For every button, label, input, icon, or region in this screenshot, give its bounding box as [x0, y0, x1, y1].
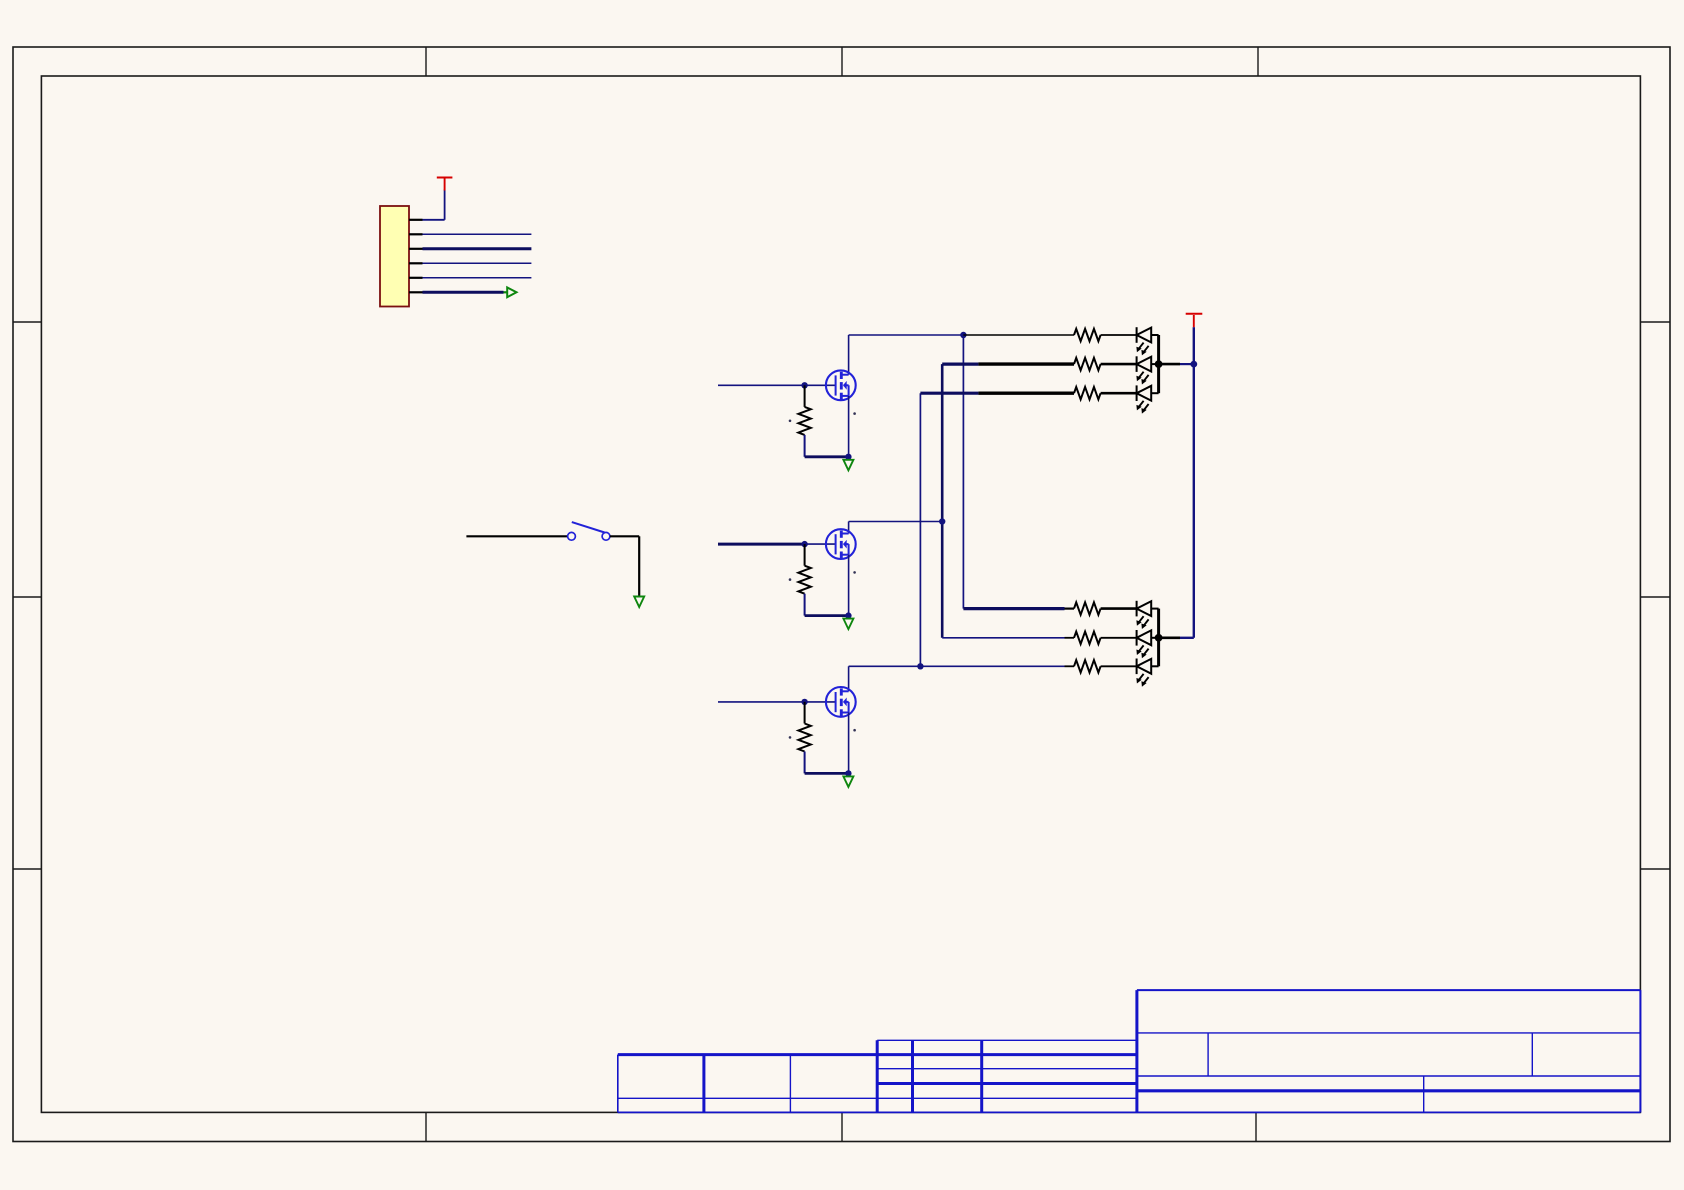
wire drain Q1 — [849, 335, 964, 375]
node power rail junction — [1190, 361, 1197, 368]
wire bottom bank to power rail — [1159, 636, 1180, 639]
wire row3 bottom (black lead) — [1065, 665, 1075, 667]
switch SW1 — [568, 522, 610, 540]
wire power rail vertical — [1180, 327, 1194, 638]
LED D6 — [1136, 659, 1158, 687]
wire top bank to power rail — [1159, 363, 1180, 366]
transistor Q3 — [826, 687, 856, 717]
node gate Q2 junction — [801, 541, 807, 547]
wire source Q3 — [848, 713, 850, 774]
resistor R4 — [1074, 329, 1137, 341]
node gate Q1 junction — [801, 382, 807, 388]
wire row1 top (black thin) — [963, 334, 1074, 336]
wire bus row1 (Q1 to LED banks) — [963, 335, 1064, 609]
designator speck Q1 — [789, 420, 792, 423]
wire row2 bottom (black lead) — [1065, 637, 1075, 639]
wire gate Q1 — [718, 384, 836, 386]
wire bus row2 — [942, 364, 1064, 638]
wire resistor R1 to source — [805, 455, 849, 458]
LED D2 — [1136, 356, 1158, 384]
wire pin3 (thick) — [423, 247, 532, 250]
wire drain Q2 — [849, 522, 943, 534]
wire bus row3 — [920, 393, 1064, 666]
ground (switch) — [634, 597, 644, 608]
wire resistor R2 to source — [805, 614, 849, 617]
transistor Q1 — [826, 370, 856, 400]
designator speck Q2 — [789, 578, 792, 581]
node source Q2 — [845, 612, 851, 618]
power port VCC (left) — [437, 178, 453, 191]
LED D4 — [1136, 601, 1158, 629]
node source Q1 — [845, 454, 851, 460]
wire row3 top (black thick) — [978, 392, 1074, 395]
title block middle table — [877, 1040, 1137, 1112]
title block left table — [618, 1055, 1641, 1113]
node source Q3 — [845, 770, 851, 776]
wire pin5 — [423, 277, 532, 279]
resistor R5 — [1074, 358, 1137, 370]
resistor R6 — [1074, 387, 1137, 399]
resistor R2 (gate pulldown) — [798, 544, 810, 616]
resistor R8 — [1074, 632, 1137, 644]
connector J1 — [380, 206, 409, 307]
ground (Q1 source) — [843, 460, 853, 471]
resistor R7 — [1074, 602, 1137, 614]
wire LED top bank tie — [1157, 335, 1160, 393]
ground (Q2 source) — [843, 619, 853, 630]
LED D3 — [1136, 385, 1158, 413]
connector J1 pin stubs — [409, 220, 423, 292]
wire source Q1 — [848, 396, 850, 457]
wire pin1 to power — [423, 190, 445, 220]
resistor R9 — [1074, 660, 1137, 672]
wire row1 bottom (black lead) — [1065, 607, 1075, 609]
wire LED bottom bank tie — [1157, 609, 1160, 667]
designator speck Q3 — [789, 736, 792, 739]
wire pin2 — [423, 233, 532, 235]
wire source Q2 — [848, 555, 850, 616]
power port VCC (right) — [1186, 314, 1203, 328]
node top bank junction — [1155, 360, 1163, 368]
title block main block — [1137, 990, 1641, 1112]
node bus3 junction (Q3 drain) — [917, 663, 923, 669]
wire switch to ground — [610, 536, 639, 595]
node bus1 junction — [960, 332, 966, 338]
port arrow (green) — [504, 287, 517, 297]
node gate Q3 junction — [801, 699, 807, 705]
wire row2 top (black thick) — [978, 362, 1074, 365]
LED D5 — [1136, 630, 1158, 658]
wire gate Q2 — [718, 543, 805, 546]
wire pin4 — [423, 262, 532, 264]
resistor R3 (gate pulldown) — [798, 702, 810, 774]
ground (Q3 source) — [843, 776, 853, 787]
node bus2 junction (Q2 drain) — [939, 518, 945, 524]
node bottom bank junction — [1155, 634, 1163, 642]
wire drain Q3 — [849, 666, 921, 691]
wire gate Q3 — [718, 701, 836, 703]
wire to switch — [466, 535, 567, 537]
wire resistor R3 to source — [805, 772, 849, 775]
wire pin6 (thick) — [423, 291, 504, 294]
LED D1 — [1136, 327, 1158, 355]
transistor Q2 — [826, 529, 856, 559]
resistor R1 (gate pulldown) — [798, 385, 810, 457]
